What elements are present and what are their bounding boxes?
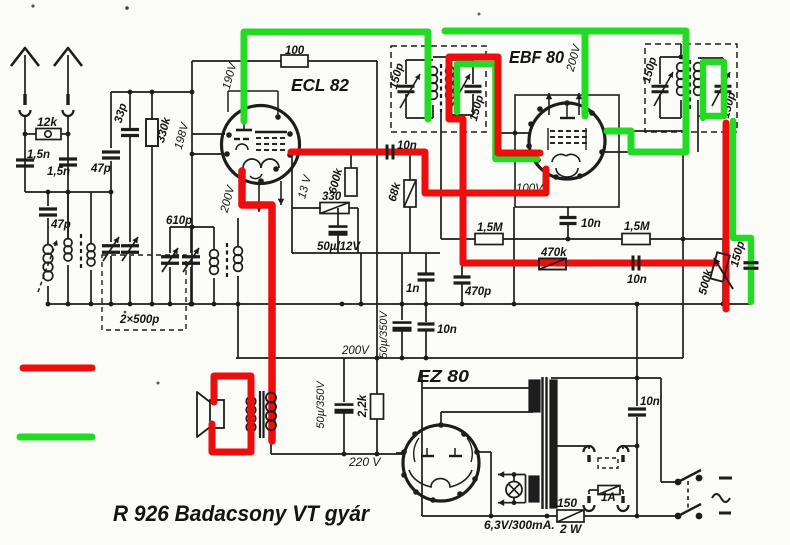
output transformer secondary overlay [266, 393, 276, 403]
red legend [23, 365, 92, 372]
green wire ECL82 anode [244, 32, 428, 121]
svg-text:50µ/12V: 50µ/12V [317, 241, 361, 253]
resistor 330k [151, 92, 153, 119]
oscillator coil T2 core [226, 243, 228, 279]
resistor 68k [409, 150, 411, 180]
node line y=192 [25, 191, 111, 193]
capacitor 50u/12V [337, 214, 339, 224]
svg-text:100: 100 [285, 45, 305, 57]
fuse 1A [584, 505, 595, 511]
IFT1 secondary coil [446, 67, 455, 76]
svg-text:470k: 470k [540, 247, 567, 259]
capacitor 150p tone overlay [744, 261, 759, 264]
mains switch [660, 378, 662, 482]
wire x=637 to ground bus [636, 304, 638, 378]
resistor 150 2W [557, 510, 584, 522]
IFT1 primary coil [406, 59, 433, 61]
green wire 200V branch [582, 33, 589, 116]
svg-text:1,5M: 1,5M [477, 222, 503, 234]
capacitor 10n detector [632, 256, 635, 271]
svg-text:2,2k: 2,2k [357, 394, 369, 418]
IFT1 cap 150p left [405, 60, 407, 84]
tube EBF80 [529, 103, 605, 179]
wire EZ80 cathode 220V [396, 452, 404, 454]
svg-text:50µ/350V: 50µ/350V [315, 380, 327, 429]
IFT2 cap 150p right [722, 58, 724, 84]
svg-text:6,3V/300mA.: 6,3V/300mA. [484, 518, 555, 532]
tuning gang capacitor VC2 [121, 244, 139, 247]
dashed box 2x500p [102, 255, 186, 330]
svg-text:610p: 610p [166, 215, 192, 227]
antenna 2 [54, 48, 82, 66]
voltage selector [556, 445, 589, 447]
red wire detector output [723, 123, 730, 309]
power transformer primary winding [550, 380, 557, 508]
cathode network box [291, 155, 293, 253]
capacitor 47p rf [102, 150, 120, 153]
wire EBF80 plate to IFT2 [605, 130, 684, 132]
antenna coil T1 secondary [90, 192, 92, 243]
EBF80 outer box [515, 95, 619, 207]
svg-text:150: 150 [557, 496, 577, 510]
capacitor 10n mains [636, 378, 638, 406]
wire 47p rf branch [110, 92, 112, 148]
power transformer lamp winding [529, 476, 539, 502]
wire 200V feed x=377 [376, 61, 378, 358]
IF transformer 2 box [645, 44, 737, 132]
capacitor 10n rail [425, 304, 427, 322]
oscillator coil T2 primary [213, 227, 215, 249]
rail 200V y=358 [236, 357, 683, 359]
HT line y=378 [551, 377, 661, 379]
svg-text:200V: 200V [341, 345, 370, 357]
wire grid ECL82 triode [192, 153, 224, 155]
wire ECL82 triode plate [192, 133, 225, 135]
green wire IFT1 to EBF80 grid [457, 64, 537, 159]
IFT2 secondary coil [694, 63, 703, 72]
wire IFT1 top feed [433, 56, 497, 58]
resistor 1,5M right [622, 234, 650, 245]
IF transformer 1 box [391, 46, 486, 132]
green legend [20, 434, 92, 441]
svg-text:1,5n: 1,5n [47, 166, 70, 178]
speaker [197, 392, 210, 437]
red wire speaker loop [212, 376, 251, 452]
wire 610p link [170, 226, 214, 228]
wire cathode bottom [292, 252, 440, 254]
capacitor 33p [129, 92, 131, 129]
capacitor 1,5n left [16, 158, 34, 161]
tube EZ80 [403, 425, 479, 501]
heater line y=515 [422, 515, 557, 517]
svg-text:10n: 10n [397, 140, 417, 152]
wire EZ80 plate top [440, 412, 442, 425]
wire top y=61 [192, 60, 281, 62]
scan specks [31, 4, 34, 7]
tuning gang capacitor VC1 [102, 244, 120, 247]
antenna 1 [11, 48, 39, 66]
output transformer core [259, 391, 261, 438]
capacitor 10n screen [567, 207, 569, 216]
heater arrows EBF80 [548, 93, 550, 115]
svg-text:1,5M: 1,5M [624, 221, 650, 233]
potentiometer 500k [710, 252, 730, 281]
resistor 330 [320, 203, 349, 214]
rail 220V [271, 453, 403, 455]
wire to ground x=361 [360, 253, 362, 304]
svg-text:R 926 Badacsony VT gyár: R 926 Badacsony VT gyár [113, 501, 370, 526]
red wire IF to volume pot [449, 57, 716, 263]
wire grid EBF80 [495, 62, 497, 158]
capacitor 1n [425, 253, 427, 273]
output transformer primary [246, 397, 255, 406]
IFT2 cap 150p left [659, 57, 661, 84]
padder capacitor 610p b [190, 227, 192, 253]
capacitor 10n coupling [386, 145, 389, 160]
wire ECL82 box left [191, 61, 193, 305]
red wire output stage [242, 171, 272, 441]
svg-text:220 V: 220 V [348, 455, 381, 469]
capacitor 47p antenna [47, 192, 49, 206]
resistor 470k overlay [539, 259, 566, 270]
oscillator coil T2 secondary [237, 218, 239, 246]
antenna coil T1 primary [67, 192, 69, 238]
svg-text:1,5n: 1,5n [27, 149, 50, 161]
svg-text:47p: 47p [90, 163, 111, 175]
IFT2 core [689, 60, 691, 112]
green wire EBF80 plate to 200V [445, 31, 686, 152]
resistor 100 [281, 55, 308, 67]
svg-text:470p: 470p [464, 286, 491, 298]
pilot lamp [506, 482, 522, 498]
svg-text:10n: 10n [627, 274, 647, 286]
green wire detector to pot [733, 121, 751, 302]
svg-text:1n: 1n [406, 283, 419, 295]
svg-text:50µ/350V: 50µ/350V [378, 310, 390, 359]
svg-text:10n: 10n [437, 324, 457, 336]
green wire IFT2 secondary loop [703, 62, 724, 118]
potentiometer 500k overlay [710, 252, 730, 281]
svg-text:2 W: 2 W [559, 522, 583, 536]
power transformer core [541, 377, 543, 509]
resistor 600k [350, 150, 352, 168]
resistor 470k [539, 259, 566, 270]
antenna coil T1 core [80, 234, 82, 268]
adjustable coil L1 [43, 245, 53, 255]
capacitor 470p [461, 263, 463, 277]
svg-text:ECL 82: ECL 82 [291, 75, 349, 95]
svg-text:EBF 80: EBF 80 [509, 47, 564, 67]
wire x=514 box to bus [513, 207, 515, 304]
AVC line y=239 [441, 238, 475, 240]
wire x=402 to ground [401, 253, 403, 304]
IFT1 core [440, 64, 442, 112]
detector line y=264 [462, 263, 539, 265]
capacitor 50u/350V upper [401, 304, 403, 320]
power transformer HV winding [529, 380, 540, 412]
svg-text:10n: 10n [640, 396, 660, 408]
wire EZ80 box [421, 370, 423, 516]
wire top rail y=92 [111, 91, 192, 93]
svg-text:10n: 10n [581, 218, 601, 230]
svg-text:1A: 1A [601, 492, 616, 504]
wire EZ80 heater [477, 451, 491, 453]
tube ECL82 [222, 106, 300, 184]
resistor 1,5M left [475, 234, 503, 245]
svg-text:2×500p: 2×500p [119, 314, 159, 326]
heater arrows ECL82 [258, 183, 260, 212]
padder capacitor 610p a [169, 227, 171, 253]
ground bus y=304 [48, 303, 751, 305]
svg-text:EZ 80: EZ 80 [417, 366, 469, 386]
svg-text:12k: 12k [37, 115, 58, 129]
capacitor 50u/350V lower [343, 358, 345, 402]
IFT1 cap 150p right [472, 60, 474, 84]
resistor 12k [25, 133, 36, 135]
wire IFT1 return [440, 112, 442, 239]
red wire ECL82 plate line [291, 152, 546, 193]
IFT2 primary coil [660, 56, 681, 58]
capacitor 1,5n right [59, 157, 77, 160]
capacitor 150p tone [750, 242, 752, 261]
wire IFT2 secondary return [682, 152, 684, 358]
output transformer secondary [266, 393, 276, 403]
resistor 2,2k [371, 394, 384, 419]
